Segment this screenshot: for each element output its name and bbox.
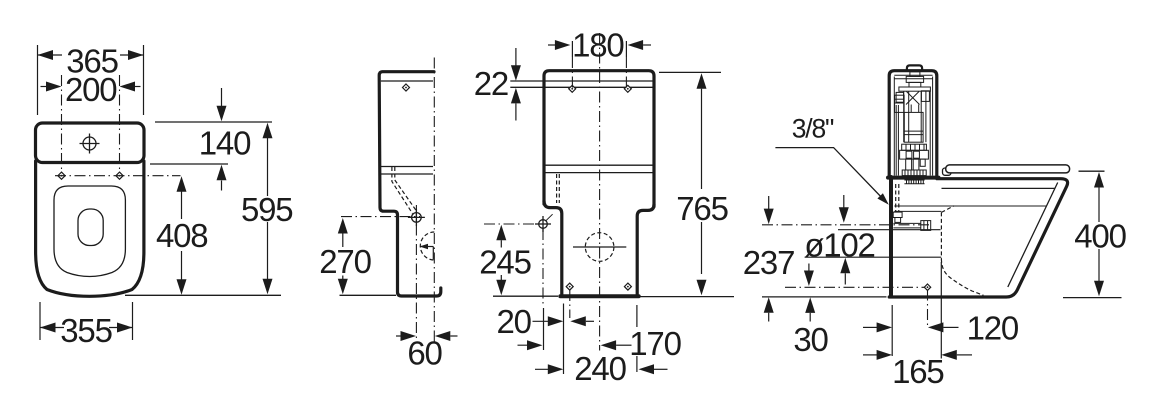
- svg-text:400: 400: [1074, 218, 1126, 255]
- outlet diamond: [924, 284, 930, 290]
- bottom flange: [902, 170, 926, 176]
- svg-text:30: 30: [793, 321, 828, 358]
- lid fixing diamond right: [624, 85, 631, 92]
- dimension 240: [535, 368, 556, 370]
- 180 extension left: [571, 41, 573, 57]
- wall centreline: [433, 58, 435, 343]
- fixing hole diamond left: [58, 172, 65, 179]
- body step right + pedestal right: [637, 205, 654, 295]
- svg-text:765: 765: [676, 190, 727, 227]
- flush valve: button rod: [910, 72, 920, 77]
- dimension 400: [1094, 172, 1104, 188]
- svg-text:60: 60: [407, 335, 442, 372]
- cistern outline (plan): [36, 123, 145, 163]
- svg-text:170: 170: [629, 325, 681, 362]
- outlet marker: [421, 246, 434, 248]
- hidden trapway (dashed): [940, 212, 942, 258]
- bowl outline: rim top, front face, base bottom: [889, 179, 1067, 297]
- dimension 170: [518, 344, 535, 346]
- cistern outline (side): [889, 71, 937, 178]
- seat and lid (closed): [946, 165, 1070, 173]
- push button: [907, 65, 922, 70]
- bottom extension line (595/408): [125, 294, 281, 296]
- supply pipe nut: [921, 221, 931, 231]
- dimension 355: [40, 327, 64, 329]
- inlet diagonal tick: [546, 214, 553, 221]
- water inlet crosshair: [535, 216, 551, 232]
- outlet columns: [906, 159, 912, 170]
- inlet valve body: [921, 91, 929, 102]
- body step left + pedestal left: [544, 201, 562, 294]
- 400 top extension: [1079, 170, 1105, 172]
- tank/bowl joint seam lines: [546, 164, 653, 166]
- dimension 180: [548, 44, 556, 46]
- seat ring (plan): [54, 186, 125, 277]
- tank inner walls: [893, 77, 895, 176]
- svg-text:595: 595: [241, 191, 292, 228]
- floor line left: [762, 296, 887, 298]
- lid fixing diamond left: [569, 85, 576, 92]
- supply pipe: [893, 222, 921, 224]
- cistern outline (rear): [544, 71, 654, 207]
- svg-text:355: 355: [60, 312, 111, 349]
- 180 extension right: [625, 41, 627, 57]
- floor extension right (400): [1063, 297, 1122, 299]
- cistern profile outline: [379, 72, 441, 296]
- dimension 365 extension lines: [37, 45, 39, 115]
- vertical centreline: [599, 33, 601, 351]
- dimension 200: [41, 86, 49, 88]
- seat hinge cap: [943, 168, 952, 175]
- svg-text:165: 165: [892, 353, 943, 390]
- inlet crosshair: [408, 209, 425, 226]
- svg-text:200: 200: [65, 71, 117, 108]
- dimension o102: [843, 195, 845, 208]
- inlet axis dash-dot: [484, 223, 536, 225]
- svg-text:408: 408: [156, 217, 207, 254]
- svg-text:180: 180: [572, 27, 624, 64]
- fixing hole diamond right: [116, 172, 123, 179]
- svg-text:120: 120: [967, 309, 1019, 346]
- svg-text:237: 237: [743, 244, 794, 281]
- valve seat band: [902, 144, 927, 150]
- dimension 165: [863, 354, 877, 356]
- dimension 22: [515, 48, 517, 66]
- outlet gasket comb: [904, 179, 924, 181]
- dimension 140 extension lines: [155, 121, 272, 123]
- 3/8" leader line: [775, 148, 886, 202]
- svg-text:ø102: ø102: [804, 227, 874, 264]
- dimension 595: [263, 123, 273, 139]
- svg-text:3/8": 3/8": [792, 113, 834, 143]
- back wall: [889, 177, 893, 297]
- svg-text:20: 20: [497, 303, 532, 340]
- flush valve flange: [899, 87, 931, 91]
- svg-text:22: 22: [474, 65, 508, 102]
- bowl body outline (plan): [36, 161, 144, 296]
- dimension 765: [697, 73, 707, 89]
- hidden outlet circle (dashed arc): [420, 232, 434, 260]
- dimension 408: [177, 176, 187, 192]
- base fixing diamond right: [624, 283, 631, 290]
- hole centreline (horizontal dash-dot): [55, 175, 181, 177]
- cistern lid seam: [381, 80, 433, 82]
- inlet axis dash-dot: [762, 224, 932, 226]
- dimension 270: [338, 218, 348, 234]
- leader arrowhead: [877, 193, 888, 205]
- dimension 60: [396, 335, 401, 337]
- o102 extension lines: [838, 229, 941, 231]
- dimension 245: [496, 225, 506, 241]
- inlet vertical centreline: [542, 229, 544, 307]
- 245 bottom extension: [493, 295, 558, 297]
- overflow tube: [929, 91, 931, 176]
- svg-text:240: 240: [574, 350, 626, 387]
- tank/bowl joint seam lines: [381, 166, 433, 168]
- float cup: [895, 95, 905, 112]
- cistern lid seam line: [510, 86, 653, 88]
- dimension 365: [38, 54, 63, 56]
- cistern lid crosshair mark: [80, 134, 100, 154]
- hidden outlet circle (dashed): [585, 233, 614, 262]
- outlet vertical centreline: [927, 290, 929, 327]
- bowl opening (plan): [78, 209, 103, 246]
- dimension 30: [808, 264, 810, 272]
- bottom extension lines: [563, 304, 565, 375]
- hidden inlet pipe (dashed): [895, 184, 897, 212]
- outlet axis dash-dot: [785, 286, 928, 288]
- hidden supply hose (dashed): [556, 174, 558, 203]
- supply riser: [895, 105, 897, 176]
- tank inner top lines: [894, 74, 932, 76]
- inlet vertical centreline: [415, 205, 417, 342]
- pedestal base bottom: [560, 294, 638, 298]
- bowl inner line long: [894, 205, 1046, 207]
- valve lever diagonals: [907, 92, 920, 105]
- svg-text:140: 140: [199, 125, 251, 162]
- float pivot: [896, 92, 904, 102]
- inlet elbow: [893, 212, 902, 217]
- extension line 120/165 left: [891, 305, 893, 356]
- cistern lid line: [510, 80, 653, 82]
- base fixing diamond left: [566, 283, 573, 290]
- bowl inner line short: [894, 210, 941, 212]
- valve base: [900, 150, 929, 159]
- cistern bottom: [888, 176, 939, 180]
- svg-text:245: 245: [479, 244, 530, 281]
- dimension 140: [221, 88, 223, 107]
- valve tube: [908, 91, 910, 142]
- outlet cross line: [573, 246, 626, 248]
- dimension 120: [863, 326, 877, 328]
- inlet axis (horizontal dash-dot): [341, 216, 420, 218]
- seat bottom line: [942, 187, 1055, 189]
- dimension 200 extension lines (dash-dot): [61, 75, 63, 172]
- hidden water inlet duct (dashed): [392, 167, 413, 214]
- float body: [904, 112, 923, 142]
- valve guides: [903, 91, 905, 142]
- extension line 165 right: [940, 262, 942, 359]
- 765 top extension: [659, 71, 721, 73]
- floor extension line: [340, 294, 397, 296]
- lid fixing diamond: [403, 84, 410, 91]
- 765 bottom extension: [640, 296, 734, 298]
- dimension 355 extension lines: [39, 302, 41, 340]
- svg-text:270: 270: [319, 243, 371, 280]
- inner front face line: [1008, 183, 1058, 288]
- dimension 237: [768, 196, 770, 209]
